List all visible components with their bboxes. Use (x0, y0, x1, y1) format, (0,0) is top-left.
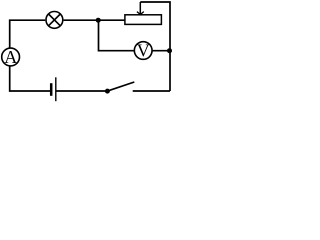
wire slider to top-right corner and right rail down (140, 2, 170, 91)
rheostat slider arrow (137, 2, 144, 15)
ammeter A1 (2, 48, 20, 66)
node junction dot B (167, 48, 172, 53)
wire bottom-right segment (133, 90, 170, 92)
battery cell positive plate (long thin) (55, 77, 57, 101)
wire top-left corner: left vertical to ammeter top, horizontal to lamp (10, 20, 46, 48)
voltmeter V1 (134, 42, 152, 60)
wire ammeter bottom, bottom-left corner to battery (10, 66, 50, 91)
wire battery to switch (56, 90, 105, 92)
switch S1 arm (107, 82, 134, 91)
wire junction down and right to voltmeter (99, 20, 135, 51)
rheostat R1 body (125, 15, 161, 25)
svg-text:A: A (4, 47, 17, 67)
svg-text:V: V (137, 41, 150, 61)
switch S1 pivot dot (105, 89, 110, 94)
wire lamp to rheostat (64, 19, 125, 21)
battery cell negative plate (short thick) (50, 83, 53, 96)
node junction dot A (96, 18, 101, 23)
wire voltmeter to right rail (152, 50, 170, 52)
lamp L1 (46, 12, 63, 29)
